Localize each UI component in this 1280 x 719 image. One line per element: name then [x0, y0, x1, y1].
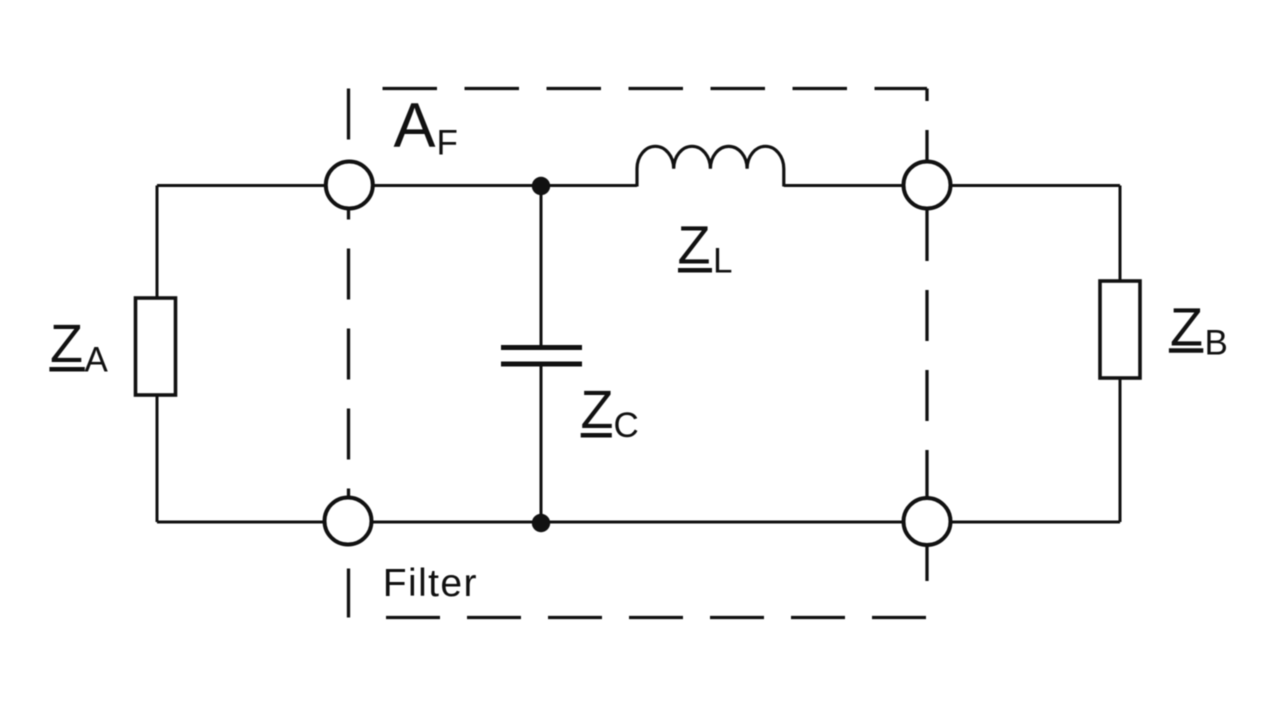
svg-text:L: L	[713, 242, 732, 281]
filter box dashed left edge	[347, 89, 350, 618]
wire: right vertical above ZB	[1119, 186, 1122, 283]
impedance ZA rectangle	[136, 298, 176, 395]
junction dot top	[532, 177, 550, 195]
svg-text:F: F	[437, 124, 458, 163]
svg-text:Filter: Filter	[383, 562, 478, 605]
svg-text:C: C	[614, 406, 639, 445]
terminal circle top-right	[904, 162, 951, 209]
impedance ZB rectangle	[1100, 281, 1140, 378]
capacitor ZC plates	[501, 348, 582, 365]
filter box dashed top edge	[383, 87, 928, 90]
svg-text:Z: Z	[50, 314, 83, 374]
svg-text:Z: Z	[678, 216, 711, 276]
wire: right vertical below ZB	[1119, 377, 1122, 522]
wire: top horizontal (inductor to ZB corner)	[784, 184, 1120, 187]
ZL underline	[678, 268, 712, 273]
svg-text:A: A	[394, 91, 436, 161]
terminal circle top-left	[326, 162, 373, 209]
wire: bottom horizontal	[157, 521, 1120, 524]
junction dot bottom	[532, 514, 550, 532]
capacitor bottom plate	[501, 362, 582, 367]
ZA underline	[49, 367, 84, 372]
filter box dashed bottom edge	[386, 616, 927, 619]
filter box dashed right edge	[925, 89, 928, 601]
wire: top horizontal (ZA node to inductor)	[157, 184, 637, 187]
terminal circle bottom-right	[904, 498, 951, 545]
wire: left vertical below ZA	[156, 394, 159, 522]
terminal circle bottom-left	[325, 498, 372, 545]
svg-text:B: B	[1205, 323, 1228, 362]
inductor ZL coil	[637, 146, 784, 186]
svg-text:Z: Z	[581, 380, 614, 440]
wire: left vertical above ZA	[156, 186, 159, 300]
svg-text:A: A	[85, 341, 109, 380]
wire: capacitor branch upper	[540, 186, 543, 346]
capacitor top plate	[501, 345, 582, 350]
ZB underline	[1169, 348, 1203, 353]
wire: capacitor branch lower	[540, 366, 543, 522]
ZC underline	[581, 433, 612, 438]
